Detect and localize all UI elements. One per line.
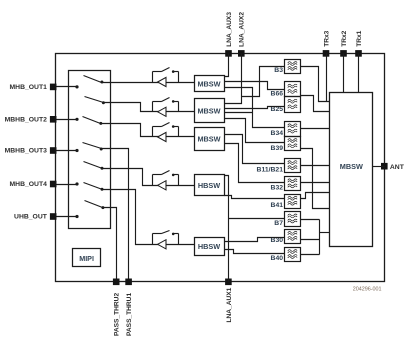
svg-text:TRx3: TRx3	[323, 30, 330, 46]
svg-text:LNA_AUX2: LNA_AUX2	[239, 12, 246, 47]
svg-text:B40: B40	[271, 255, 284, 262]
svg-text:B3: B3	[274, 67, 283, 74]
svg-text:MBSW: MBSW	[340, 162, 363, 171]
svg-text:B32: B32	[271, 185, 284, 192]
svg-text:B11/B21: B11/B21	[257, 166, 284, 173]
svg-text:MBSW: MBSW	[197, 135, 220, 144]
svg-text:B39: B39	[271, 145, 284, 152]
svg-text:UHB_OUT: UHB_OUT	[14, 214, 48, 221]
svg-text:HBSW: HBSW	[198, 242, 220, 251]
svg-text:B30: B30	[271, 237, 284, 244]
svg-text:MBHB_OUT3: MBHB_OUT3	[5, 148, 48, 155]
svg-text:MBHB_OUT2: MBHB_OUT2	[5, 116, 48, 123]
svg-text:TRx2: TRx2	[341, 30, 348, 46]
svg-text:TRx1: TRx1	[356, 30, 363, 46]
svg-text:B41: B41	[271, 202, 284, 209]
svg-text:PASS_THRU2: PASS_THRU2	[114, 293, 121, 336]
svg-text:B34: B34	[271, 130, 284, 137]
svg-text:PASS_THRU1: PASS_THRU1	[126, 293, 133, 336]
svg-text:LNA_AUX3: LNA_AUX3	[226, 12, 233, 47]
svg-text:ANT: ANT	[390, 164, 405, 171]
svg-text:MBSW: MBSW	[197, 79, 220, 88]
svg-text:B25: B25	[271, 106, 284, 113]
svg-text:MHB_OUT1: MHB_OUT1	[10, 84, 48, 91]
svg-text:B66: B66	[271, 91, 284, 98]
svg-text:B7: B7	[274, 220, 283, 227]
svg-text:HBSW: HBSW	[198, 181, 220, 190]
svg-text:MIPI: MIPI	[79, 254, 94, 263]
svg-text:MBSW: MBSW	[197, 106, 220, 115]
svg-text:MHB_OUT4: MHB_OUT4	[10, 181, 48, 188]
svg-text:204296-001: 204296-001	[353, 287, 382, 293]
svg-text:LNA_AUX1: LNA_AUX1	[226, 287, 233, 322]
